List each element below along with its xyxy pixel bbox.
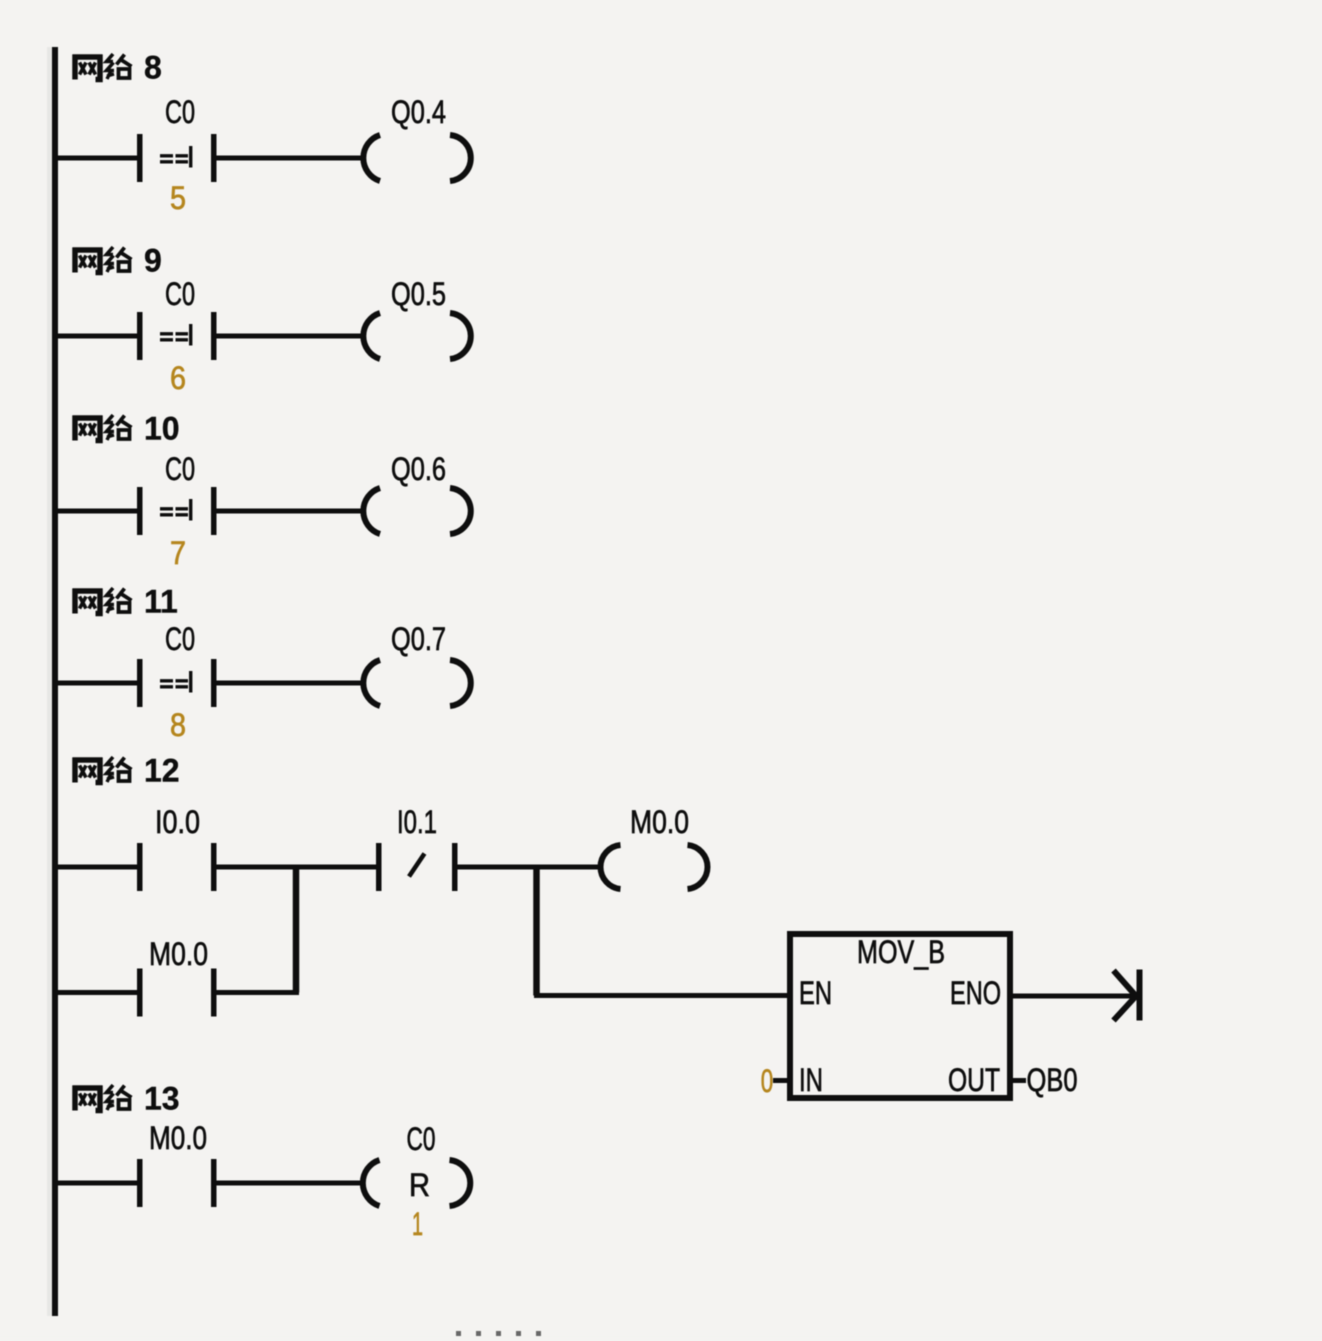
svg-text:Q0.5: Q0.5: [391, 276, 446, 312]
contact I0.1 (NC): [376, 843, 458, 891]
cropped caption remnants at bottom edge: [456, 1331, 541, 1336]
svg-text:1: 1: [412, 1206, 423, 1242]
wire rail to compare contact (network 9): [58, 334, 137, 339]
wire branch contact to junction: [217, 990, 300, 995]
operand label I0.0: [155, 804, 200, 840]
pin EN: [799, 975, 832, 1011]
compare contact C0 ==I (network 10): [137, 487, 217, 535]
wire contact to reset coil: [217, 1181, 364, 1186]
wire IN pin stub: [773, 1078, 790, 1083]
wire contact I0.0 to contact I0.1: [217, 865, 377, 870]
compare contact C0 ==I (network 11): [137, 659, 217, 707]
svg-text:R: R: [409, 1167, 430, 1203]
node: branch junction riser: [293, 867, 300, 993]
operand label Q0.4: [391, 94, 446, 130]
coil Q0.4: [363, 135, 470, 181]
svg-text:EN: EN: [799, 975, 832, 1011]
pin IN: [799, 1062, 823, 1098]
wire rail to contact M0.0 (network 13): [58, 1181, 137, 1186]
svg-text:Q0.7: Q0.7: [391, 621, 446, 657]
compare value 5 (network 8): [170, 180, 186, 216]
svg-text:M0.0: M0.0: [630, 804, 689, 840]
svg-text:11: 11: [144, 584, 178, 620]
svg-text:Q0.6: Q0.6: [391, 451, 446, 487]
continuation arrow: [1114, 970, 1143, 1021]
svg-text:I0.0: I0.0: [155, 804, 200, 840]
network 8 label: [73, 50, 162, 86]
svg-text:9: 9: [144, 243, 162, 279]
svg-text:IN: IN: [799, 1062, 823, 1098]
svg-text:Q0.4: Q0.4: [391, 94, 446, 130]
svg-text:C0: C0: [165, 621, 195, 657]
svg-text:8: 8: [144, 50, 162, 86]
compare contact C0 ==I (network 8): [137, 134, 217, 182]
operand label Q0.5: [391, 276, 446, 312]
wire rail to contact I0.0: [58, 865, 137, 870]
pin OUT: [948, 1062, 1000, 1098]
svg-text:10: 10: [144, 411, 180, 447]
network 13 label: [73, 1081, 180, 1117]
contact M0.0 (NO, network 13): [137, 1159, 217, 1207]
coil Q0.6: [363, 488, 470, 534]
coil M0.0: [600, 845, 707, 889]
svg-text:M0.0: M0.0: [149, 936, 208, 972]
wire rail to compare contact (network 11): [58, 681, 137, 686]
svg-text:13: 13: [144, 1081, 180, 1117]
operand label C0 (network 9): [165, 276, 195, 312]
svg-text:MOV_B: MOV_B: [857, 934, 945, 970]
network 11 label: [73, 584, 178, 620]
operand label C0 (network 8): [165, 94, 195, 130]
operand label M0.0 (branch contact): [149, 936, 208, 972]
wire ENO to continuation arrow: [1010, 994, 1136, 999]
svg-text:6: 6: [170, 360, 186, 396]
svg-text:C0: C0: [165, 276, 195, 312]
svg-text:I0.1: I0.1: [397, 804, 437, 840]
wire rail to compare contact (network 8): [58, 156, 137, 161]
wire contact to coil (network 8): [217, 156, 365, 161]
wire rail to compare contact (network 10): [58, 509, 137, 514]
network 10 label: [73, 411, 180, 447]
operand label Q0.6: [391, 451, 446, 487]
wire contact to coil (network 9): [217, 334, 365, 339]
wire junction to MOV_B EN: [534, 993, 790, 998]
svg-text:C0: C0: [407, 1121, 436, 1157]
operand label M0.0 (coil): [630, 804, 689, 840]
function block MOV_B: [790, 934, 1010, 1098]
coil Q0.7: [363, 660, 470, 706]
operand label C0 (network 13): [407, 1121, 436, 1157]
wire contact to coil (network 11): [217, 681, 365, 686]
svg-text:5: 5: [170, 180, 186, 216]
operand label C0 (network 10): [165, 451, 195, 487]
svg-text:M0.0: M0.0: [149, 1120, 207, 1156]
svg-text:C0: C0: [165, 451, 195, 487]
operand label M0.0 (network 13): [149, 1120, 207, 1156]
svg-text:QB0: QB0: [1027, 1062, 1078, 1098]
power rail (left bus bar): [52, 47, 58, 1316]
pin ENO: [950, 975, 1001, 1011]
operand label Q0.7: [391, 621, 446, 657]
reset count value 1: [412, 1206, 423, 1242]
svg-text:0: 0: [761, 1063, 774, 1099]
svg-text:ENO: ENO: [950, 975, 1001, 1011]
svg-text:C0: C0: [165, 94, 195, 130]
compare value 6 (network 9): [170, 360, 186, 396]
network 12 label: [73, 753, 180, 789]
value 0 on IN: [761, 1063, 774, 1099]
svg-text:8: 8: [170, 707, 186, 743]
compare value 8 (network 11): [170, 707, 186, 743]
operand label QB0: [1027, 1062, 1078, 1098]
network 9 label: [73, 243, 162, 279]
svg-text:OUT: OUT: [948, 1062, 1000, 1098]
contact I0.0 (NO): [137, 843, 217, 891]
wire contact to coil (network 10): [217, 509, 365, 514]
coil Q0.5: [363, 313, 470, 359]
node: tap junction dropper: [533, 867, 540, 996]
svg-text:12: 12: [144, 753, 180, 789]
operand label I0.1: [397, 804, 437, 840]
svg-text:7: 7: [170, 535, 186, 571]
wire OUT pin stub: [1010, 1078, 1026, 1083]
wire contact I0.1 to coil M0.0: [458, 865, 603, 870]
reset coil C0 (R): [363, 1160, 470, 1206]
power rail shadow: [47, 47, 52, 1316]
compare contact C0 ==I (network 9): [137, 312, 217, 360]
contact M0.0 (NO, parallel branch): [137, 969, 217, 1017]
operand label C0 (network 11): [165, 621, 195, 657]
wire rail to branch contact M0.0: [58, 990, 137, 995]
compare value 7 (network 10): [170, 535, 186, 571]
